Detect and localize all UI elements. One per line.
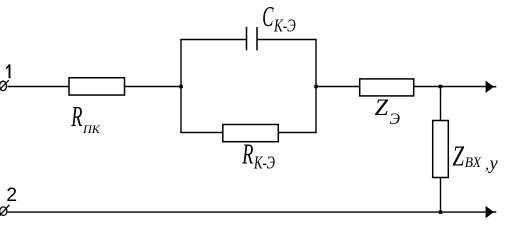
svg-text:C: C — [262, 2, 273, 33]
impedance Z_вх,у — [433, 121, 449, 178]
label R_К-Э — [242, 138, 275, 172]
wire bottom branch right segment — [279, 132, 317, 134]
wire Z_э to output arrow — [414, 86, 488, 88]
wire R_pk to node A — [125, 86, 181, 88]
label R_пк — [71, 101, 101, 136]
node C (junction to Z_вх,у) — [439, 85, 443, 89]
svg-text:,: , — [485, 157, 489, 173]
resistor R_пк — [69, 78, 125, 95]
label Z_э — [375, 95, 401, 128]
label Z_вх,у — [453, 141, 498, 172]
svg-text:R: R — [71, 101, 83, 133]
svg-text:ПК: ПК — [82, 122, 101, 136]
svg-text:Z: Z — [453, 141, 465, 172]
wire node C down to Z_вх,у — [440, 87, 442, 121]
wire bottom branch left segment — [180, 132, 222, 134]
svg-text:ВХ: ВХ — [465, 155, 482, 171]
wire node B to Z_э — [316, 86, 359, 88]
terminal 1 (input port, circle with slash) — [0, 80, 9, 90]
output arrow bottom — [486, 206, 497, 218]
svg-text:К-Э: К-Э — [273, 15, 296, 35]
terminal 2 (bottom port, circle with slash) — [0, 205, 9, 216]
wire top branch left segment to capacitor — [180, 39, 246, 41]
node D (bottom junction) — [439, 210, 443, 214]
wire bottom rail — [8, 211, 489, 213]
svg-text:у: у — [488, 153, 498, 173]
svg-text:Z: Z — [375, 95, 389, 121]
wire top branch right segment from capacitor — [257, 39, 317, 41]
svg-text:К-Э: К-Э — [253, 152, 275, 172]
wire Z_вх,у down to bottom rail — [440, 178, 442, 212]
node B (right junction of parallel group) — [314, 85, 318, 89]
node A (left junction of parallel group) — [179, 85, 183, 89]
svg-text:2: 2 — [6, 184, 17, 206]
svg-text:R: R — [242, 138, 254, 170]
wire left branch up/down of parallel group — [180, 40, 182, 133]
output arrow top — [486, 81, 497, 93]
label C_К-Э — [262, 2, 296, 36]
wire terminal1 to R_pk — [7, 86, 68, 88]
impedance Z_э — [360, 79, 414, 96]
wire right branch of parallel group — [315, 40, 317, 133]
capacitor C_К-Э — [247, 27, 258, 50]
svg-text:Э: Э — [390, 111, 401, 128]
label 1 — [6, 64, 9, 78]
resistor R_К-Э — [223, 125, 278, 142]
